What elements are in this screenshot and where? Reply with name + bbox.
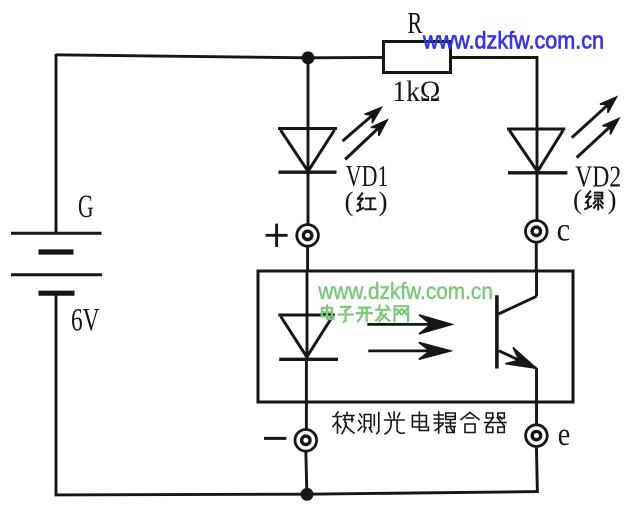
wire left vertical lower <box>55 293 58 496</box>
battery G plate long 1 <box>11 232 102 235</box>
wire collector inside box <box>535 271 538 296</box>
svg-text:6V: 6V <box>71 303 100 339</box>
resistor R body <box>384 42 451 73</box>
phototransistor emitter arrowhead <box>505 347 540 376</box>
wire terminal c to box <box>535 242 538 271</box>
wire terminal plus to box <box>306 246 309 271</box>
terminal e inner ring <box>532 431 540 439</box>
coupling arrow 2 <box>368 342 451 359</box>
optocoupler internal LED triangle <box>278 315 335 357</box>
terminal plus outer circle <box>297 225 319 247</box>
wire left vertical upper <box>55 54 58 233</box>
svg-text:): ) <box>608 185 617 215</box>
svg-text:): ) <box>379 187 388 217</box>
svg-text:(: ( <box>345 187 354 217</box>
node junction top <box>302 51 315 64</box>
battery G plate long 2 <box>11 273 102 276</box>
plus sign <box>266 224 288 247</box>
svg-text:(: ( <box>573 185 582 215</box>
VD1 light arrow 2 <box>345 116 391 160</box>
terminal minus inner ring <box>302 436 310 444</box>
optocoupler internal LED cathode bar <box>279 358 338 361</box>
wire inside box to internal LED <box>306 271 309 359</box>
phototransistor base bar <box>495 295 499 368</box>
optocoupler box outline <box>258 271 573 402</box>
minus sign <box>264 437 286 440</box>
caption bei ce guang dian ou he qi <box>333 412 506 434</box>
wire resistor to right corner <box>451 56 539 59</box>
LED VD1 cathode bar <box>279 170 337 173</box>
label lv glyph <box>585 191 603 209</box>
wire VD2 to terminal c <box>536 173 539 222</box>
coupling arrow 1 <box>367 315 452 334</box>
phototransistor emitter lead <box>499 351 537 369</box>
VD2 light arrow 1 <box>572 93 621 138</box>
label hong glyph <box>357 193 375 211</box>
wire internal LED to terminal minus <box>305 359 308 430</box>
terminal minus outer circle <box>295 430 317 452</box>
battery G plate short 2 <box>39 291 75 296</box>
VD1 light arrow 1 <box>343 103 386 141</box>
terminal c inner ring <box>532 227 540 235</box>
svg-text:1kΩ: 1kΩ <box>392 75 440 108</box>
phototransistor collector lead <box>499 296 537 314</box>
svg-text:G: G <box>78 189 94 225</box>
wire left branch node to VD1 <box>307 58 310 173</box>
svg-text:www.dzkfw.com.cn: www.dzkfw.com.cn <box>422 28 604 55</box>
watermark green dian zi kai fa wang <box>322 305 408 321</box>
LED VD2 triangle <box>507 129 565 171</box>
wire emitter to box bottom <box>535 368 538 425</box>
svg-text:www.dzkfw.com.cn: www.dzkfw.com.cn <box>317 278 492 304</box>
wire top horizontal <box>56 55 384 58</box>
battery G plate short 1 <box>39 249 74 254</box>
terminal plus inner ring <box>303 231 311 239</box>
svg-text:R: R <box>408 5 423 40</box>
node junction bottom <box>301 488 314 501</box>
LED VD1 triangle <box>278 129 337 172</box>
wire terminal e to bottom corner <box>536 446 537 493</box>
wire right vertical to VD2 <box>536 58 539 173</box>
VD2 light arrow 2 <box>577 114 623 157</box>
svg-text:c: c <box>557 213 571 249</box>
svg-text:e: e <box>558 417 571 453</box>
wire bottom horizontal <box>55 492 538 495</box>
wire terminal minus to bottom junction <box>306 451 307 495</box>
LED VD2 cathode bar <box>508 171 567 174</box>
wire VD1 to terminal plus <box>307 172 310 225</box>
terminal c outer circle <box>526 221 548 243</box>
terminal e outer circle <box>526 425 548 447</box>
